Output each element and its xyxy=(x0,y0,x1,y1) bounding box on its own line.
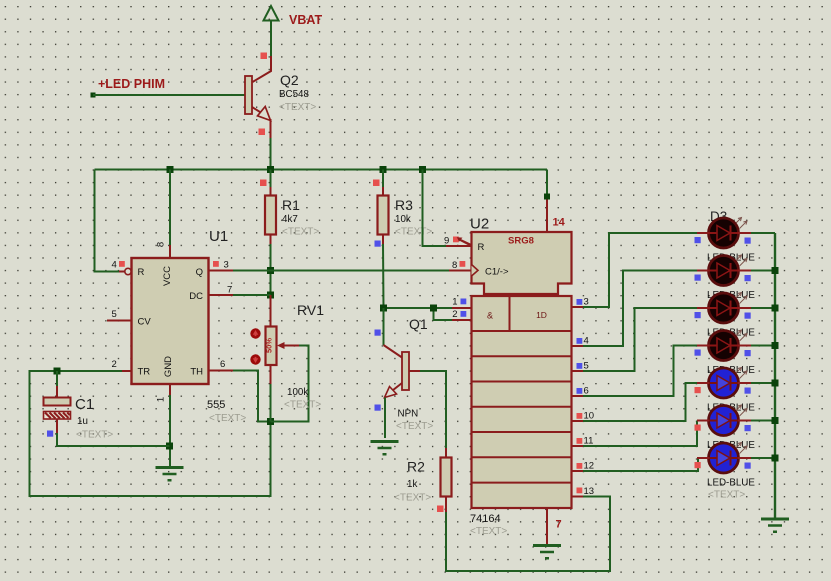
wire Q2 collector lead xyxy=(253,56,272,82)
svg-text:<TEXT>: <TEXT> xyxy=(396,421,433,432)
pin number 4 (U2 out) xyxy=(584,336,589,347)
svg-text:R: R xyxy=(138,267,145,278)
pin number 1 xyxy=(452,297,457,308)
svg-text:<TEXT>: <TEXT> xyxy=(394,493,431,504)
wire U1 pin3 stub xyxy=(209,270,234,272)
wire LED2 cathode xyxy=(738,270,775,272)
value U2 74164 xyxy=(470,513,501,525)
resistor R3 xyxy=(378,196,389,235)
label R3 TEXT xyxy=(395,227,432,238)
value Q1 NPN xyxy=(398,409,419,420)
wire U1 pin5 CV stub xyxy=(107,320,132,322)
svg-text:7: 7 xyxy=(556,519,562,531)
label R3 xyxy=(395,197,413,213)
svg-text:R2: R2 xyxy=(407,459,425,475)
pin name VCC xyxy=(162,266,173,286)
marker LED2 right xyxy=(745,275,751,281)
pin name DC xyxy=(189,291,203,302)
svg-text:U1: U1 xyxy=(209,228,228,245)
pin number 4 xyxy=(112,260,117,271)
label Q2 TEXT xyxy=(279,102,316,113)
svg-text:U2: U2 xyxy=(470,216,489,233)
LED D4 (LED-BLUE) xyxy=(708,330,747,361)
svg-text:2: 2 xyxy=(452,309,457,320)
wire U2 pin4 to LED2 xyxy=(572,271,697,347)
svg-text:R: R xyxy=(478,242,485,253)
pin name GND xyxy=(163,356,174,377)
wire rail to R3 xyxy=(382,170,384,197)
node rail-R3 xyxy=(380,166,387,173)
wire U2 pin6 to LED4 xyxy=(572,346,697,397)
svg-text:LED-BLUE: LED-BLUE xyxy=(707,478,755,489)
marker U2 pin2 xyxy=(461,311,467,317)
wire top rail xyxy=(95,169,548,171)
wire LED5 anode stub xyxy=(697,382,709,384)
wire LED1 cathode xyxy=(738,232,775,234)
pin number 9 xyxy=(444,236,449,247)
node rail LED junction xyxy=(772,455,779,462)
svg-text:555: 555 xyxy=(207,399,225,411)
marker Q2 emitter xyxy=(259,129,266,136)
svg-text:<TEXT>: <TEXT> xyxy=(209,413,246,424)
value U1 555 xyxy=(207,399,225,411)
potentiometer RV1 body xyxy=(266,327,277,366)
wire Q2 emitter to rail xyxy=(270,138,272,170)
wire R2 bottom xyxy=(446,497,610,572)
svg-text:12: 12 xyxy=(584,461,595,472)
wire LED4 anode stub xyxy=(697,345,709,347)
marker LED6 left xyxy=(695,425,701,431)
label R1 TEXT xyxy=(282,227,319,238)
svg-text:100k: 100k xyxy=(287,387,308,398)
value R2 1k xyxy=(407,479,417,490)
capacitor C1 plate2 xyxy=(44,412,71,420)
marker U2 pin6 xyxy=(577,388,583,394)
svg-text:<TEXT>: <TEXT> xyxy=(284,400,321,411)
svg-text:Q1: Q1 xyxy=(409,316,428,332)
wire LED4 cathode xyxy=(738,345,775,347)
svg-text:SRG8: SRG8 xyxy=(508,236,534,247)
wire LED3 anode stub xyxy=(697,307,709,309)
wire LED6 cathode xyxy=(738,420,775,422)
wire Q to U2 clock xyxy=(233,270,471,272)
svg-text:<TEXT>: <TEXT> xyxy=(76,430,113,441)
svg-text:14: 14 xyxy=(553,217,566,229)
svg-text:1: 1 xyxy=(156,397,167,402)
label C1 xyxy=(75,396,94,413)
svg-text:NPN: NPN xyxy=(398,409,419,420)
svg-text:2: 2 xyxy=(112,359,117,370)
svg-text:R3: R3 xyxy=(395,197,413,213)
value LED4 label xyxy=(707,365,755,376)
value R1 4k7 xyxy=(282,214,298,225)
shift register U2 main body xyxy=(472,296,572,508)
pin number 2 xyxy=(112,359,117,370)
svg-text:R1: R1 xyxy=(282,197,300,213)
svg-text:4: 4 xyxy=(584,336,589,347)
value R3 10k xyxy=(395,214,411,225)
LED D2 (LED-BLUE) xyxy=(708,255,747,286)
marker U2 pin9 xyxy=(453,237,459,243)
transistor Q2 xyxy=(245,76,271,121)
wire TH net xyxy=(209,371,271,422)
wire LED5 cathode xyxy=(738,382,775,384)
svg-text:7: 7 xyxy=(227,285,232,296)
node R1-DC xyxy=(267,292,274,299)
wire U2 pin10 to LED5 xyxy=(572,383,697,421)
svg-text:&: & xyxy=(487,311,493,321)
label D3 xyxy=(710,209,727,224)
node gnd-C1 xyxy=(166,443,173,450)
pin number 2 xyxy=(452,309,457,320)
power symbol VBAT xyxy=(264,6,323,27)
svg-text:CV: CV xyxy=(138,317,152,328)
svg-text:10: 10 xyxy=(584,411,595,422)
marker LED3 left xyxy=(695,312,701,318)
wire U2 pin12 to LED7 xyxy=(572,458,698,471)
svg-text:TR: TR xyxy=(138,367,151,378)
wire LED1 anode stub xyxy=(697,232,709,234)
node rail LED junction xyxy=(772,267,779,274)
label RV1 xyxy=(297,302,324,318)
pin name CV xyxy=(138,317,152,328)
U2 row separators xyxy=(472,296,572,483)
svg-text:Q2: Q2 xyxy=(280,72,299,88)
pin number 5 (U2 out) xyxy=(584,361,589,372)
wire RV1 wiper xyxy=(271,342,309,422)
svg-text:DC: DC xyxy=(189,291,203,302)
label SRG8 xyxy=(508,236,534,247)
label Q2 xyxy=(280,72,299,88)
value LED1 label xyxy=(707,253,755,264)
wire LED7 anode stub xyxy=(697,457,709,459)
svg-text:GND: GND xyxy=(163,356,174,377)
op-amp U1 body xyxy=(132,258,209,384)
node rail LED junction xyxy=(772,380,779,387)
marker Q2 collector xyxy=(261,53,268,60)
pin number 14 xyxy=(553,217,566,229)
node R3-Q1 junction xyxy=(380,305,387,312)
svg-text:3: 3 xyxy=(584,297,589,308)
pin number 11 (U2 out) xyxy=(584,436,594,447)
LED D1 (LED-BLUE) xyxy=(708,218,747,249)
pin number 10 (U2 out) xyxy=(584,411,595,422)
node rail-U2pin9 xyxy=(419,166,426,173)
svg-text:Q: Q xyxy=(196,267,203,278)
marker LED7 right xyxy=(745,463,751,469)
pin name TR xyxy=(138,367,151,378)
wire rail to U2 pin9 xyxy=(423,170,472,247)
pin number 3 xyxy=(224,260,229,271)
marker R3 top xyxy=(373,180,380,187)
pin name TH xyxy=(190,367,203,378)
pin number 7 xyxy=(227,285,232,296)
marker R2 bottom xyxy=(437,506,444,513)
marker Q1 collector xyxy=(375,330,381,336)
ground LED rail xyxy=(761,519,789,533)
marker LED7 left xyxy=(695,462,701,468)
svg-text:6: 6 xyxy=(584,386,589,397)
marker U2 pin13 xyxy=(577,488,583,494)
pin name R (U2) xyxy=(478,242,485,253)
wire Q1 base to R2 xyxy=(420,371,446,458)
wire LED2 anode stub xyxy=(697,270,709,272)
pointer arrow at pin9 xyxy=(457,237,472,247)
svg-text:1u: 1u xyxy=(77,416,88,427)
wire U2 pin7 xyxy=(546,508,548,544)
value LED5 label xyxy=(707,403,755,414)
svg-text:11: 11 xyxy=(584,436,594,447)
marker U2 pin5 xyxy=(577,363,583,369)
svg-text:5: 5 xyxy=(112,309,117,320)
label RV1 TEXT xyxy=(284,400,321,411)
resistor R2 xyxy=(441,458,452,497)
svg-text:VBAT: VBAT xyxy=(289,13,322,27)
wire Q1 collector xyxy=(384,308,403,358)
svg-text:8: 8 xyxy=(452,260,457,271)
marker LED4 left xyxy=(695,350,701,356)
pin number 7 (U2) xyxy=(556,519,562,531)
svg-text:C1/->: C1/-> xyxy=(485,267,509,278)
marker U2 pin12 xyxy=(577,463,583,469)
wire U2 pin5 to LED3 xyxy=(572,308,697,371)
svg-text:1: 1 xyxy=(452,297,457,308)
svg-text:<TEXT>: <TEXT> xyxy=(282,227,319,238)
pin number 5 xyxy=(112,309,117,320)
label U2 xyxy=(470,216,489,233)
wire RV1 bottom lead xyxy=(270,365,272,422)
marker U2 pin11 xyxy=(577,438,583,444)
LED D3 (LED-BLUE) xyxy=(708,293,747,324)
node TR-C1 xyxy=(54,368,61,375)
wire U1 pin7 DC xyxy=(209,294,271,296)
svg-text:10k: 10k xyxy=(395,214,411,225)
svg-text:13: 13 xyxy=(584,486,595,497)
pot RV1 up button xyxy=(250,328,260,338)
marker C1 xyxy=(47,431,53,437)
marker LED6 right xyxy=(745,425,751,431)
svg-text:+LED PHIM: +LED PHIM xyxy=(98,77,165,91)
shift register U2 control block xyxy=(472,232,572,294)
wire rail to U1 pin8 xyxy=(169,170,171,259)
value LED3 label xyxy=(707,328,755,339)
pin name AND xyxy=(487,311,493,321)
node pins12 junction xyxy=(430,305,437,312)
marker Q1 emitter xyxy=(375,405,381,411)
wire Q2 emitter lead xyxy=(270,119,272,138)
pin name 1D xyxy=(536,310,547,320)
svg-text:BC548: BC548 xyxy=(279,89,310,100)
LED D7 (LED-BLUE) xyxy=(708,443,747,474)
wire U2 pin3 to LED1 xyxy=(572,233,697,307)
LED D6 (LED-BLUE) xyxy=(708,405,747,436)
pin name Q xyxy=(196,267,203,278)
marker LED2 left xyxy=(695,275,701,281)
marker LED5 left xyxy=(695,387,701,393)
svg-text:4: 4 xyxy=(112,260,117,271)
marker U2 pin8 xyxy=(460,261,466,267)
value BC548 xyxy=(279,89,310,100)
svg-text:RV1: RV1 xyxy=(297,302,324,318)
svg-text:5: 5 xyxy=(584,361,589,372)
wire DC to RV1 xyxy=(270,295,272,327)
pin number 8 (U2) xyxy=(452,260,457,271)
node rail-U1pin8 xyxy=(167,166,174,173)
wire LED7 cathode xyxy=(738,457,775,459)
pin name R xyxy=(138,267,145,278)
value RV1 100k xyxy=(287,387,308,398)
node RV1 bottom junction xyxy=(267,418,274,425)
wire R3 bottom xyxy=(382,235,385,309)
wire U2 pin11 to LED6 xyxy=(572,421,697,447)
marker U2 pin3 xyxy=(577,299,583,305)
marker LED1 right xyxy=(745,238,751,244)
svg-text:9: 9 xyxy=(444,236,449,247)
label R1 xyxy=(282,197,300,213)
ground Q1 xyxy=(371,442,399,456)
marker U2 pin10 xyxy=(577,413,583,419)
value C1 1u xyxy=(77,416,88,427)
svg-text:<TEXT>: <TEXT> xyxy=(395,227,432,238)
label U1 xyxy=(209,228,228,245)
marker LED4 right xyxy=(745,350,751,356)
wire VBAT stem xyxy=(270,22,272,57)
pin number 3 (U2 out) xyxy=(584,297,589,308)
value LED7 label xyxy=(707,478,755,501)
value LED2 label xyxy=(707,290,755,301)
marker LED1 left xyxy=(695,237,701,243)
pin number 8 xyxy=(156,242,167,247)
svg-text:<TEXT>: <TEXT> xyxy=(470,526,507,537)
svg-text:50%: 50% xyxy=(264,338,273,353)
svg-text:8: 8 xyxy=(156,242,167,247)
marker U2 pin4 xyxy=(577,338,583,344)
label R2 xyxy=(407,459,425,475)
wire LED6 anode stub xyxy=(697,420,709,422)
svg-text:1k: 1k xyxy=(407,479,417,490)
svg-text:VCC: VCC xyxy=(162,266,173,286)
pin number 6 xyxy=(220,359,225,370)
wire R3 to U2 pins 1-2 xyxy=(384,308,472,320)
wire LED cathode rail xyxy=(774,233,776,518)
node rail LED junction xyxy=(772,417,779,424)
LED D5 (LED-BLUE) xyxy=(708,368,747,399)
svg-text:6: 6 xyxy=(220,359,225,370)
marker LED3 right xyxy=(745,313,751,319)
marker U2 pin1 xyxy=(461,299,467,305)
label Q1 xyxy=(409,316,428,332)
pin bubble U1 R xyxy=(125,268,131,274)
resistor R1 xyxy=(265,196,276,235)
wire rail to R1 xyxy=(270,170,272,197)
wire TR net xyxy=(30,371,271,496)
wire C1 bottom lead xyxy=(57,419,170,446)
transistor Q1 xyxy=(402,352,420,390)
pin number 13 (U2) xyxy=(584,486,595,497)
marker R1 top xyxy=(260,180,267,187)
marker R3 bottom xyxy=(375,241,381,247)
pin number 6 (U2 out) xyxy=(584,386,589,397)
pin name C1 xyxy=(485,267,509,278)
value RV1 50% xyxy=(264,338,273,353)
node rail-R1 xyxy=(267,166,274,173)
svg-text:1D: 1D xyxy=(536,310,547,320)
svg-text:74164: 74164 xyxy=(470,513,501,525)
value LED6 label xyxy=(707,440,755,451)
label U2 TEXT xyxy=(470,526,507,537)
marker U1 pin3 xyxy=(213,261,219,267)
svg-text:3: 3 xyxy=(224,260,229,271)
label C1 TEXT xyxy=(76,430,113,441)
svg-text:4k7: 4k7 xyxy=(282,214,298,225)
wire LED3 cathode xyxy=(738,307,775,309)
wire +LED PHIM to Q2 base xyxy=(91,93,246,98)
capacitor C1 plate1 xyxy=(44,398,71,406)
pin number 12 (U2 out) xyxy=(584,461,595,472)
label R2 TEXT xyxy=(394,493,431,504)
U2 clock chevron xyxy=(472,265,479,277)
wire R1 bottom xyxy=(270,235,272,296)
svg-text:<TEXT>: <TEXT> xyxy=(279,102,316,113)
marker U1 pin4 xyxy=(119,261,125,267)
svg-text:<TEXT>: <TEXT> xyxy=(708,490,745,501)
wire U1 pin1 gnd xyxy=(169,384,171,467)
ground U2 xyxy=(533,546,561,560)
wire Q1 emitter xyxy=(385,383,403,438)
wire C1 top lead xyxy=(56,371,58,398)
label U1 TEXT xyxy=(209,413,246,424)
wire rail to U2 pin14 xyxy=(544,170,550,233)
wire U1 pin4 stub xyxy=(119,271,125,273)
svg-text:C1: C1 xyxy=(75,396,94,413)
label Q1 TEXT xyxy=(396,421,433,432)
pot RV1 down button xyxy=(250,354,260,364)
pin number 1 xyxy=(156,397,167,402)
ground U1 xyxy=(156,468,184,482)
svg-text:TH: TH xyxy=(190,367,203,378)
node R1-Qwire xyxy=(267,267,274,274)
node +LED PHIM label xyxy=(98,77,165,91)
node rail LED junction xyxy=(772,305,779,312)
marker LED5 right xyxy=(745,388,751,394)
node rail LED junction xyxy=(772,342,779,349)
wire rail to U1 pin4 xyxy=(95,170,120,272)
